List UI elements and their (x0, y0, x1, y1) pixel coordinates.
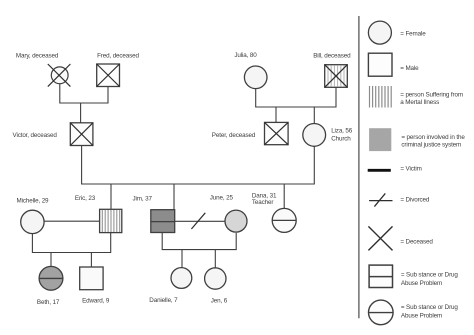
person Victor (deceased male) (70, 123, 93, 146)
wire: drop to Jim (173, 184, 175, 210)
svg-text:Peter, deceased: Peter, deceased (212, 132, 256, 139)
wire: drop from Mary-Fred bar to Victor (80, 103, 82, 123)
svg-text:Michelle, 29: Michelle, 29 (17, 197, 50, 204)
person Mary (deceased female) (48, 64, 71, 87)
wire: drop to Eric (110, 184, 112, 209)
svg-text:= Sub stance or Drug: = Sub stance or Drug (401, 304, 459, 311)
svg-text:= Deceased: = Deceased (400, 238, 433, 245)
person June (female, 25) (225, 210, 247, 232)
legend symbol: male square (368, 53, 392, 76)
divorce slash between Jim and June (191, 213, 205, 229)
person Liza (female, 56) (303, 123, 326, 146)
person Edward (male, 9) (80, 267, 103, 290)
svg-text:criminal justice system: criminal justice system (401, 142, 461, 149)
legend divider line (358, 16, 360, 318)
person Peter (deceased male) (265, 122, 289, 144)
svg-text:Victor, deceased: Victor, deceased (13, 132, 58, 139)
wire: drop to Edward (90, 253, 92, 268)
svg-text:= person Suffering from: = person Suffering from (400, 91, 463, 98)
wire: drop to Jen (214, 250, 216, 269)
svg-text:= Male: = Male (400, 65, 419, 72)
wire: Julia-Bill marriage line (256, 87, 336, 107)
person Fred (deceased male) (97, 64, 120, 87)
legend symbol: substance abuse square (369, 265, 392, 287)
svg-text:Mary, deceased: Mary, deceased (16, 52, 59, 59)
svg-text:Edward, 9: Edward, 9 (82, 297, 110, 304)
wire: drop to Danielle (181, 250, 183, 268)
person Jen (female, 6) (205, 268, 226, 289)
person Danielle (female, 7) (171, 268, 192, 289)
legend symbol: criminal justice gray square (369, 128, 391, 151)
svg-text:Danielle, 7: Danielle, 7 (149, 297, 178, 304)
person Julia (female, 80) (244, 66, 267, 89)
svg-text:Beth, 17: Beth, 17 (37, 299, 60, 306)
svg-text:= Victim: = Victim (400, 166, 421, 173)
legend symbol: female circle (368, 21, 391, 44)
wire: drop to Dana (283, 184, 285, 208)
person Bill (deceased male, mental illness) (325, 65, 348, 88)
wire: Victor-Liza marriage line (82, 146, 315, 185)
wire: drop to Beth (50, 253, 52, 267)
wire: Michelle-Eric marriage line (44, 220, 100, 222)
legend symbol: divorced line with slash (369, 193, 392, 206)
svg-text:Jim, 37: Jim, 37 (133, 195, 153, 202)
legend symbol: substance abuse circle (369, 300, 394, 325)
svg-text:June, 25: June, 25 (210, 195, 234, 202)
svg-text:= Divorced: = Divorced (400, 196, 430, 203)
svg-text:a Mertal Ilness: a Mertal Ilness (400, 99, 439, 106)
person Michelle (female, 29) (21, 210, 44, 233)
person Jim (male, criminal justice + substance abuse) (151, 210, 175, 233)
wire: drop to Liza (313, 107, 315, 124)
legend symbol: deceased X (368, 226, 392, 250)
svg-text:Church: Church (331, 135, 351, 142)
svg-text:= Female: = Female (400, 30, 426, 37)
svg-text:Julia, 80: Julia, 80 (234, 52, 257, 59)
svg-text:Bill, deceased: Bill, deceased (313, 52, 351, 59)
svg-text:Abuse Problem: Abuse Problem (401, 312, 442, 319)
person Dana (female, substance abuse) (272, 208, 296, 232)
wire: Jim-June children bar (162, 233, 236, 250)
svg-text:Abuse Problem: Abuse Problem (401, 280, 442, 287)
svg-text:= Sub stance or Drug: = Sub stance or Drug (401, 271, 459, 278)
svg-text:Liza, 56: Liza, 56 (331, 128, 353, 135)
svg-text:Teacher: Teacher (252, 199, 273, 206)
wire: Michelle-Eric children bar (32, 233, 110, 253)
svg-text:= person involved in the: = person involved in the (401, 134, 465, 141)
person Eric (male, mental illness) (100, 209, 122, 232)
person Beth (female, criminal justice + substance abuse) (39, 266, 63, 290)
svg-text:Fred, deceased: Fred, deceased (97, 52, 139, 59)
wire: Mary-Fred marriage line (60, 84, 108, 104)
wire: Jim-June marriage line (175, 220, 225, 222)
wire: drop to Peter (275, 107, 277, 122)
legend symbol: victim thick line (368, 169, 391, 172)
svg-text:Eric, 23: Eric, 23 (75, 195, 96, 202)
legend symbol: mental illness stripes (370, 86, 392, 108)
svg-text:Jen, 6: Jen, 6 (211, 298, 228, 305)
